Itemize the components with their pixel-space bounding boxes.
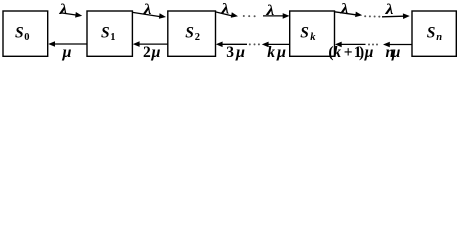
- dots top between Sk and Sn: [364, 15, 380, 17]
- dots bottom between S2 and Sk: [249, 43, 260, 45]
- svg-text:2: 2: [143, 44, 151, 61]
- svg-text:k: k: [310, 32, 316, 43]
- bottom arrow kmu Sk to dots: [262, 42, 290, 48]
- svg-text:2: 2: [195, 32, 200, 43]
- svg-text:μ: μ: [391, 44, 401, 61]
- top arrow lambda dots to Sn: [382, 13, 410, 19]
- svg-text:S: S: [15, 24, 24, 41]
- top arrow lambda S0 to S1: [62, 12, 82, 18]
- state box Sn: [412, 11, 456, 56]
- svg-text:λ: λ: [58, 2, 68, 18]
- svg-text:λ: λ: [340, 2, 350, 18]
- svg-text:n: n: [436, 32, 442, 43]
- bottom arrow 3mu dots to S2: [216, 42, 247, 48]
- top arrow lambda S2 to dots: [216, 12, 239, 18]
- top arrow lambda S1 to S2: [133, 12, 166, 18]
- svg-text:S: S: [185, 24, 194, 41]
- top arrow lambda Sk to dots: [335, 12, 363, 18]
- svg-text:λ: λ: [220, 2, 230, 18]
- svg-text:1: 1: [110, 32, 115, 43]
- state box Sk: [290, 11, 335, 56]
- state box S2: [168, 11, 216, 56]
- bottom arrow nmu Sn to dots: [383, 42, 412, 48]
- state box S0: [3, 11, 48, 56]
- svg-text:S: S: [300, 24, 309, 41]
- svg-text:μ: μ: [235, 44, 245, 61]
- svg-text:λ: λ: [265, 3, 275, 19]
- dots top between S2 and Sk: [243, 15, 256, 17]
- svg-text:μ: μ: [276, 44, 286, 61]
- svg-text:3: 3: [226, 44, 234, 61]
- svg-text:S: S: [427, 24, 436, 41]
- svg-text:μ: μ: [61, 44, 71, 61]
- svg-text:S: S: [101, 24, 110, 41]
- svg-text:k: k: [267, 44, 275, 61]
- bottom arrow mu S1 to S0: [48, 41, 87, 47]
- svg-text:λ: λ: [384, 2, 394, 18]
- svg-text:0: 0: [24, 32, 29, 43]
- bottom arrow 2mu S2 to S1: [133, 41, 168, 47]
- dots bottom between Sk and Sn: [368, 44, 378, 46]
- state box S1: [87, 11, 132, 56]
- svg-text:μ: μ: [150, 44, 160, 61]
- svg-text:(k+1)μ: (k+1)μ: [328, 44, 373, 61]
- top arrow lambda dots to Sk: [263, 13, 290, 19]
- svg-text:λ: λ: [142, 2, 152, 18]
- bottom arrow (k+1)mu dots to Sk: [335, 42, 366, 48]
